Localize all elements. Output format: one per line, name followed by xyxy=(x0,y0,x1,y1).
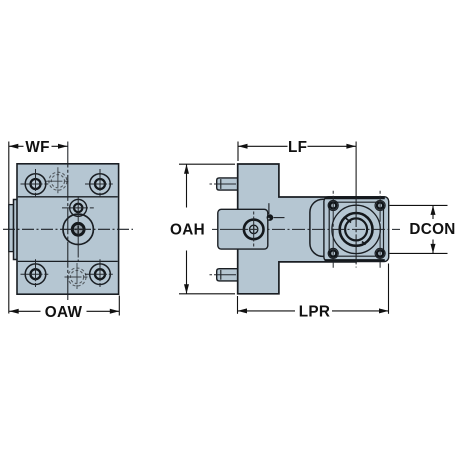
wire LF right extension / coupling vertical centerline xyxy=(355,142,357,197)
wire DCON top extension line xyxy=(390,204,448,206)
svg-text:WF: WF xyxy=(25,139,49,156)
wire stud S2 centerline xyxy=(210,274,242,276)
svg-text:DCON: DCON xyxy=(409,221,455,238)
bolt hole B2 xyxy=(90,174,111,195)
tool block bore xyxy=(244,220,264,240)
wire LPR left extension line xyxy=(237,296,239,314)
flange plate xyxy=(324,197,389,262)
clamp screw xyxy=(267,214,274,221)
flange inner face edge xyxy=(329,202,383,256)
hidden hole H2 xyxy=(68,268,86,286)
stud S2 xyxy=(217,269,238,281)
wire flange bolt column centerline left xyxy=(332,191,334,268)
flange thick top edge xyxy=(325,197,385,199)
bolt hole B1 xyxy=(25,174,46,195)
dimension LPR xyxy=(238,310,296,312)
wire lower band line xyxy=(18,260,118,262)
stud S1 xyxy=(217,178,238,190)
wire clamp screw leader right xyxy=(274,217,285,219)
boss big hole xyxy=(63,214,93,244)
tab inner step xyxy=(14,200,18,260)
bolt hole B4 xyxy=(90,264,111,285)
dimension OAH xyxy=(186,164,188,207)
wire block vertical centerline xyxy=(67,142,69,301)
wire boss vertical centerline xyxy=(77,198,79,262)
coupling neck xyxy=(310,199,354,256)
coupling circles xyxy=(332,205,380,253)
dimension LF xyxy=(238,145,288,147)
flange bolt FB2 xyxy=(375,201,385,211)
wire flange bolt column centerline right xyxy=(379,191,381,268)
svg-text:LF: LF xyxy=(288,139,307,156)
hidden hole H1 xyxy=(49,172,67,190)
side-view body plate xyxy=(238,164,356,294)
wire front-view horizontal centerline xyxy=(3,228,133,230)
wire OAH top extension line xyxy=(179,163,235,165)
wire LF left extension line xyxy=(237,142,239,162)
wire LPR right extension line xyxy=(388,264,390,314)
wire OAW right extension line xyxy=(118,296,120,316)
front-view body block xyxy=(17,164,119,294)
wire side-view horizontal centerline xyxy=(212,228,400,230)
dimension WF xyxy=(9,145,24,147)
tool block xyxy=(218,209,268,249)
wire DCON bottom extension line xyxy=(390,252,448,254)
dimension OAW xyxy=(9,310,40,312)
svg-text:OAH: OAH xyxy=(170,222,205,239)
svg-text:LPR: LPR xyxy=(299,303,331,320)
wire stud S1 centerline xyxy=(210,183,242,185)
wire small-hole h-centerline xyxy=(62,207,96,209)
flange thick bottom edge xyxy=(325,259,385,261)
bolt hole B3 xyxy=(25,264,46,285)
dimension DCON xyxy=(432,205,434,219)
wire WF-OAW shared extension line xyxy=(8,142,10,314)
wire OAH bottom extension line xyxy=(179,293,235,295)
flange bolt FB4 xyxy=(375,248,385,258)
flange bolt FB3 xyxy=(328,248,338,258)
wire tool block horizontal centerline piece xyxy=(220,228,248,230)
wire upper band line xyxy=(18,196,118,198)
wire tool block vertical centerline xyxy=(253,212,255,248)
wire clamp screw edge line xyxy=(268,203,270,214)
tab outer step xyxy=(9,205,14,252)
svg-text:OAW: OAW xyxy=(45,304,83,321)
flange bolt FB1 xyxy=(328,201,338,211)
boss small hole xyxy=(70,199,87,216)
